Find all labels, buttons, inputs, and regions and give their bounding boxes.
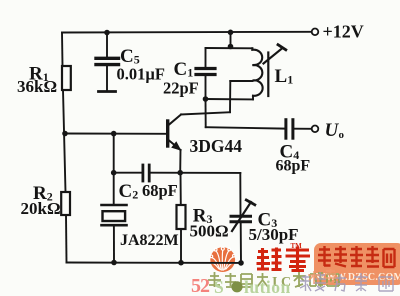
wire: output vertical from tank bottom	[205, 99, 207, 127]
wire: output line to C4	[206, 127, 285, 128]
capacitor C1	[196, 67, 215, 70]
svg-text:S: S	[214, 277, 224, 296]
wire: tap vertical	[229, 81, 231, 112]
transistor collector diagonal	[169, 115, 181, 125]
svg-text:500Ω: 500Ω	[190, 222, 229, 241]
svg-text:+12V: +12V	[323, 22, 364, 42]
svg-text:3DG44: 3DG44	[190, 136, 243, 156]
svg-text:52: 52	[191, 275, 210, 296]
transistor emitter diagonal	[169, 140, 181, 150]
wire: collector line to coil tap	[181, 112, 230, 114]
watermark glyphs "quanqiuzuida IC caigouwang" olive	[208, 272, 339, 290]
wire: C2/crystal branch vertical	[113, 134, 115, 173]
svg-text:o: o	[339, 129, 345, 141]
crystal JA822M	[102, 204, 127, 207]
svg-text:JA822M: JA822M	[120, 232, 179, 249]
capacitor C3 (trimmer)	[231, 215, 251, 218]
wire: emitter row C2 to R3 to C3	[150, 172, 240, 174]
wire: C3 bottom to rail	[240, 223, 242, 263]
wire: tank stub from rail	[230, 32, 232, 46]
terminal Uo circle	[312, 126, 319, 133]
svg-text:C1: C1	[174, 59, 194, 80]
capacitor C4	[284, 120, 287, 139]
adjustable core of L1	[267, 53, 269, 97]
wire: left rail bottom segment R2 to bottom rail	[65, 215, 68, 263]
wire: stub emitter row to C3	[239, 173, 241, 215]
watermark group	[191, 242, 400, 296]
svg-text:20kΩ: 20kΩ	[21, 199, 61, 218]
node: junction dot C3/bottom rail	[238, 260, 244, 266]
wire: tank bottom line	[206, 98, 254, 100]
wire: base line from divider to transistor	[65, 133, 166, 135]
wire: C1 bottom lead to tank bottom	[205, 76, 207, 99]
node: junction dot tank top	[228, 44, 234, 50]
wire: bottom rail	[67, 262, 242, 264]
svg-text:68pF: 68pF	[276, 158, 311, 175]
watermark 52Solution	[191, 275, 291, 296]
wire: C5 bottom lead	[106, 66, 108, 90]
node: junction dot emitter/R3	[177, 170, 183, 176]
trimmer arrow of C3	[232, 202, 251, 231]
wire: tap horizontal to coil	[230, 80, 252, 82]
resistor R3	[177, 205, 186, 229]
wire: coil bottom stub	[252, 96, 254, 99]
node: junction dot crystal/C2	[111, 170, 117, 176]
ground bar below C5	[99, 90, 116, 93]
wire: left rail middle segment R1 to R2	[63, 90, 66, 192]
capacitor C2	[141, 165, 144, 181]
svg-text:U: U	[325, 120, 340, 141]
transistor emitter arrowhead	[172, 142, 180, 150]
watermark glyphs "woaifanganwang" outlined grey	[300, 272, 393, 291]
svg-text:22pF: 22pF	[163, 79, 199, 98]
terminal +12V circle	[312, 29, 319, 36]
node: junction dot base/left rail	[62, 131, 68, 137]
inductor L1 coil	[252, 48, 262, 95]
wire: stub tank top to C1	[205, 48, 207, 67]
wire: R3 bottom to rail	[180, 229, 182, 263]
node: junction dot tank bottom	[203, 96, 209, 102]
wire: left rail top segment to R1	[61, 33, 64, 67]
watermark orange outline chars overlap	[308, 269, 336, 284]
wire: stub junction to crystal	[113, 173, 115, 204]
transistor Q 3DG44: bar	[166, 121, 169, 146]
wire: stub emitter junction to R3	[180, 173, 182, 205]
wire: top +12V rail	[62, 31, 311, 34]
node: junction dot C2 branch	[111, 131, 117, 137]
node: junction dot R3/bottom rail	[178, 260, 184, 266]
svg-text:68pF: 68pF	[142, 181, 178, 200]
wire: C4 to output terminal	[294, 128, 311, 130]
svg-text:C2: C2	[119, 181, 139, 202]
node: junction dot tank/top rail	[228, 30, 234, 36]
node: junction dot crystal/bottom rail	[111, 260, 117, 266]
capacitor C5	[96, 57, 119, 60]
watermark orange panel	[314, 243, 400, 285]
wire: emitter down to junction	[179, 150, 181, 173]
svg-text:0.01µF: 0.01µF	[117, 65, 165, 84]
svg-text:36kΩ: 36kΩ	[17, 77, 57, 96]
watermark glyphs "dianzishichangwang" red on orange	[318, 246, 395, 267]
wire: tank top line	[206, 47, 253, 49]
watermark logo icon (red circle with circuit sprout)	[210, 247, 235, 272]
node: junction dot C5/top rail	[104, 30, 110, 36]
resistor R2	[61, 192, 70, 215]
watermark glyphs "weiku" big red	[257, 247, 311, 271]
resistor R1	[62, 66, 71, 90]
svg-text:lution: lution	[244, 277, 291, 296]
wire: emitter row left of C2	[114, 172, 142, 174]
wire: stub rail to C5	[106, 33, 108, 57]
svg-text:L1: L1	[275, 66, 294, 87]
